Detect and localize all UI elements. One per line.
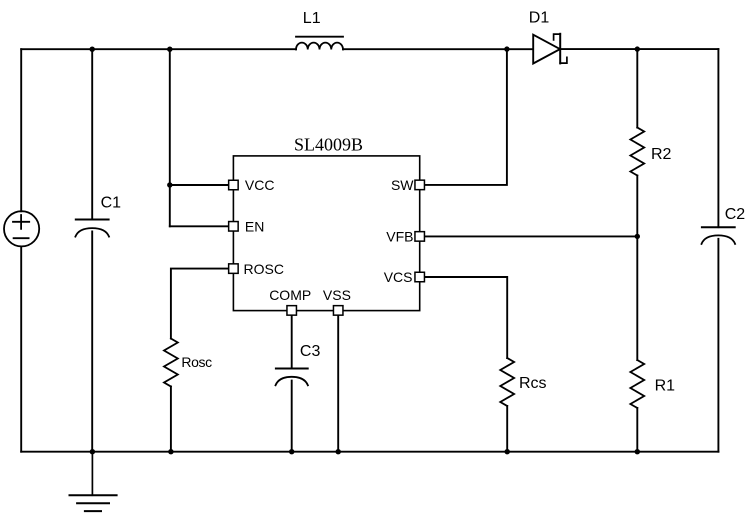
wire VCS branch — [425, 277, 507, 358]
resistor R2 — [630, 128, 644, 176]
wire ROSC pin to Rosc — [171, 269, 228, 339]
svg-text:COMP: COMP — [269, 287, 311, 303]
pin VCS — [415, 272, 425, 282]
wire Rosc bottom — [170, 387, 172, 452]
svg-text:VCS: VCS — [384, 269, 413, 285]
wire C1 branch lower — [91, 231, 93, 451]
node at C3 bottom — [289, 449, 294, 454]
IC U1 SL4009B box — [233, 156, 419, 311]
svg-text:EN: EN — [245, 219, 264, 235]
svg-text:D1: D1 — [529, 10, 550, 27]
wire to EN pin — [170, 225, 228, 227]
node at Rcs bottom — [505, 449, 510, 454]
wire Rcs bottom — [506, 406, 508, 452]
node at D1 cathode / R2 branch — [635, 46, 640, 51]
node at VCC branch — [167, 182, 172, 187]
pin VCC — [229, 180, 239, 190]
wire COMP to C3 — [291, 316, 293, 369]
svg-text:C2: C2 — [725, 206, 746, 223]
wire C1 branch upper — [91, 49, 93, 219]
node at VFB / R2-R1 divider — [635, 234, 640, 239]
node at VSS bottom — [336, 449, 341, 454]
node at C1 top — [90, 47, 95, 52]
capacitor C2 — [702, 227, 736, 244]
wire R1 bottom — [636, 408, 638, 452]
pin VSS — [333, 306, 343, 316]
wire VSS branch — [337, 316, 339, 452]
svg-text:R2: R2 — [651, 146, 672, 163]
node at D1 anode / SW branch — [504, 46, 509, 51]
node at C1 bottom / ground — [90, 449, 95, 454]
wire bottom rail — [21, 451, 718, 453]
wire R2 top — [636, 49, 638, 127]
wire VCC/EN branch vertical — [169, 49, 171, 226]
ground — [70, 452, 117, 511]
svg-text:L1: L1 — [303, 10, 321, 27]
wire to VCC pin — [170, 184, 228, 186]
svg-text:SL4009B: SL4009B — [294, 135, 363, 155]
svg-text:VSS: VSS — [323, 287, 351, 303]
svg-text:SW: SW — [391, 177, 414, 193]
wire right rail upper — [717, 49, 719, 227]
svg-text:VFB: VFB — [386, 229, 413, 245]
pin SW — [415, 180, 425, 190]
wire top rail left segment — [21, 48, 296, 50]
inductor L1 — [296, 37, 343, 50]
svg-text:R1: R1 — [655, 377, 676, 394]
wire right rail lower — [717, 239, 719, 452]
svg-text:VCC: VCC — [245, 177, 275, 193]
capacitor C3 — [276, 369, 308, 386]
wire left rail lower — [20, 246, 22, 451]
diode D1 (schottky) — [533, 34, 567, 64]
svg-text:C3: C3 — [300, 343, 321, 360]
node at Rosc bottom — [168, 449, 173, 454]
svg-text:Rosc: Rosc — [181, 354, 212, 370]
svg-text:Rcs: Rcs — [519, 375, 547, 392]
capacitor C1 — [75, 220, 109, 237]
pin VFB — [415, 232, 425, 242]
node at R1 bottom — [635, 449, 640, 454]
wire divider to R1 — [636, 236, 638, 360]
wire SW branch — [425, 49, 507, 185]
source V1 — [4, 211, 39, 246]
wire C3 bottom — [291, 381, 293, 452]
resistor Rosc — [164, 339, 178, 387]
svg-text:ROSC: ROSC — [244, 261, 284, 277]
pin ROSC — [229, 264, 239, 274]
resistor Rcs — [500, 358, 514, 406]
wire VFB branch — [425, 235, 637, 237]
wire R2 bottom to VFB node — [636, 176, 638, 237]
pin EN — [229, 222, 239, 232]
node at VCC branch top — [167, 47, 172, 52]
resistor R1 — [630, 360, 644, 408]
wire left rail upper — [20, 49, 22, 211]
wire top rail right segment — [560, 48, 718, 50]
svg-text:C1: C1 — [101, 195, 122, 212]
wire top rail middle segment — [343, 48, 533, 50]
pin COMP — [287, 306, 297, 316]
